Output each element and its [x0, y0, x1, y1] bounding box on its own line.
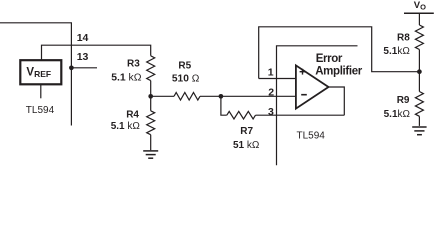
svg-text:1: 1	[268, 67, 274, 79]
svg-text:VREF: VREF	[26, 67, 51, 80]
svg-text:R5: R5	[178, 61, 191, 72]
wire VREF box bottom stub	[40, 84, 42, 98]
svg-text:R9: R9	[397, 95, 410, 106]
svg-text:51 kΩ: 51 kΩ	[233, 140, 260, 151]
resistor R9 zigzag	[415, 92, 423, 117]
svg-text:14: 14	[77, 32, 89, 44]
wire R3 bottom to R4 top through node	[150, 81, 152, 111]
resistor R3 zigzag	[147, 56, 155, 81]
wire feedback loop pin1 to divider	[259, 27, 420, 79]
wire pin13 stub	[71, 67, 97, 69]
svg-text:5.1 kΩ: 5.1 kΩ	[111, 72, 142, 83]
resistor R7 zigzag	[227, 111, 256, 119]
resistor R5 zigzag	[174, 93, 200, 101]
wire pin14 from VREF box top to R3	[42, 45, 151, 60]
ground under R4	[143, 151, 158, 158]
op-amp U1 triangle	[296, 65, 329, 108]
svg-text:5.1kΩ: 5.1kΩ	[384, 109, 411, 120]
svg-text:R3: R3	[127, 59, 140, 70]
svg-text:VO: VO	[414, 0, 426, 12]
svg-text:R7: R7	[240, 126, 253, 137]
svg-text:R8: R8	[397, 32, 410, 43]
node junction dot at pin 13 bus	[69, 65, 74, 70]
svg-text:Error: Error	[316, 53, 343, 65]
TL594 partial outline box (right)	[277, 46, 358, 166]
op-amp plus sign	[300, 69, 306, 75]
svg-text:13: 13	[77, 51, 89, 63]
wire R8 bottom to R9 top through node	[418, 50, 420, 92]
wire Vo terminal to R8	[418, 13, 420, 25]
svg-text:5.1 kΩ: 5.1 kΩ	[111, 121, 141, 132]
resistor R4 zigzag	[147, 111, 155, 135]
VREF block box	[20, 60, 61, 84]
wire top-left rail to bus	[0, 23, 71, 126]
svg-text:R4: R4	[126, 110, 139, 121]
svg-text:TL594: TL594	[26, 105, 55, 116]
svg-text:2: 2	[268, 87, 274, 99]
resistor R8 zigzag	[415, 25, 423, 49]
wire R4 bottom to ground	[150, 135, 152, 151]
svg-text:3: 3	[268, 106, 274, 118]
svg-text:510 Ω: 510 Ω	[172, 73, 200, 84]
wire node down to R7 left	[221, 96, 227, 115]
wire R7 right to feedback junction (pin 3)	[256, 114, 345, 116]
svg-text:5.1kΩ: 5.1kΩ	[383, 46, 410, 57]
svg-text:Amplifier: Amplifier	[315, 66, 363, 78]
op-amp minus sign	[301, 94, 307, 96]
wire pin 1 to non-inverting input	[259, 78, 296, 80]
svg-text:TL594: TL594	[297, 131, 326, 142]
node junction dot R5/R7/pin2	[219, 94, 224, 99]
Vo terminal bar	[404, 12, 434, 14]
wire R5 right to op-amp inverting input (pin 2)	[200, 95, 296, 97]
node junction dot R8/R9 divider	[417, 69, 422, 74]
wire node to R5 left	[151, 95, 174, 97]
wire R9 bottom to ground	[418, 116, 420, 126]
node junction dot R3/R4/R5	[148, 94, 153, 99]
wire op-amp output to pin 3	[329, 87, 345, 115]
ground under R9	[412, 127, 426, 135]
